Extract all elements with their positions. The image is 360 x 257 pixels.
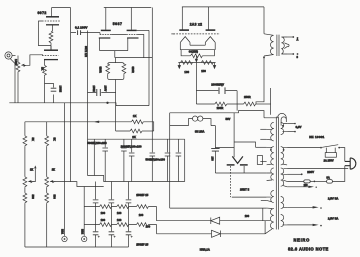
svg-text:3H 25A: 3H 25A [195, 130, 204, 134]
V5 plate left [227, 164, 235, 166]
svg-text:150MF 15: 150MF 15 [136, 243, 149, 247]
output transformer T1 primary top lead [263, 7, 265, 34]
input jack J1 [5, 52, 16, 59]
filament resistor R10 [181, 61, 193, 65]
svg-text:6072: 6072 [38, 11, 47, 15]
V4 filament [205, 37, 215, 50]
column1 ground wire [24, 204, 26, 247]
svg-text:82.6 AUDIO NOTE: 82.6 AUDIO NOTE [288, 247, 329, 252]
svg-text:100: 100 [139, 213, 144, 217]
mid resistor to V1b plate [50, 46, 52, 51]
bus right vertical [184, 139, 186, 181]
svg-text:500: 500 [53, 195, 57, 200]
left HV tap stub 1 [260, 128, 266, 130]
cathode R network loop top [108, 63, 124, 65]
svg-text:100: 100 [211, 157, 214, 162]
feedback wire with arrow [25, 121, 131, 123]
grid tie wire [100, 33, 126, 35]
svg-text:1K: 1K [52, 169, 55, 172]
T2 right winding 6.3V [281, 122, 287, 134]
hum pot column 2: wire [46, 122, 48, 136]
ladder cap C11 [93, 182, 99, 207]
left tap stub 3 [256, 146, 267, 148]
output stage top rail [182, 6, 264, 8]
svg-text:MB2: MB2 [80, 229, 83, 235]
filament resistor R11 [201, 61, 213, 65]
wire rail down to coupling cap [71, 8, 76, 182]
pot1 to R wire [24, 188, 26, 193]
svg-text:NEIRO: NEIRO [294, 237, 311, 242]
U2b cathode leg [127, 38, 129, 51]
svg-text:2,5V 5A: 2,5V 5A [328, 196, 339, 200]
HV return wire [215, 172, 266, 174]
svg-text:5K: 5K [31, 138, 35, 141]
ladder resistor R18 [136, 205, 148, 209]
ladder cap C12 [109, 182, 115, 207]
snubber box [325, 148, 336, 158]
terminal T2 [82, 236, 87, 241]
bias upper feed vertical [262, 208, 264, 221]
T1 secondary winding [281, 37, 289, 54]
bias line lower [157, 233, 266, 235]
resistor R7 [23, 136, 27, 147]
ladder cap C15 [109, 225, 116, 247]
hum resistor R9 [181, 50, 214, 58]
B+ node rail [270, 88, 272, 115]
ladder resistor R20 [100, 223, 112, 227]
bias feed from line [170, 207, 267, 209]
rectifier cathode out wire [234, 142, 255, 147]
svg-text:820R: 820R [131, 67, 135, 73]
cathode bypass cap C3 [88, 89, 116, 96]
ladder row1 wire [84, 207, 156, 221]
T1 primary winding [264, 34, 274, 56]
T2 right winding mains lower [281, 168, 287, 187]
5687 top rail [104, 7, 152, 9]
pot wiper wire to grid [26, 55, 44, 66]
svg-text:500MF,100+100: 500MF,100+100 [87, 141, 107, 145]
svg-text:500: 500 [31, 195, 35, 200]
long vertical to terminal 1 [64, 103, 66, 236]
bias vertical rail [169, 113, 171, 208]
cathode node wire down [115, 80, 117, 106]
6.3V tap 2 dot [294, 131, 296, 133]
svg-text:2K: 2K [132, 135, 136, 139]
cap bank left lead [93, 139, 95, 175]
bias line upper [157, 220, 266, 222]
terminal dot A [297, 37, 299, 39]
cathode join wire [100, 51, 153, 63]
svg-text:1K: 1K [133, 114, 137, 118]
filter cap C10 [176, 139, 182, 181]
svg-text:8: 8 [297, 55, 299, 59]
ladder cap C13 [126, 182, 132, 207]
ladder cap C16 [126, 225, 133, 247]
ladder resistor R22 [136, 223, 148, 227]
cap node wire down [236, 91, 238, 111]
bias right vertical [264, 221, 266, 234]
resistor R13 [244, 102, 271, 106]
filament inner bar [190, 44, 205, 46]
bias feed line [170, 111, 264, 118]
tube V1a grid [42, 20, 60, 22]
svg-text:MB1: MB1 [61, 229, 64, 235]
V3 filament [180, 37, 190, 50]
6.3V tap 2 [287, 131, 294, 133]
bias pot VR3 [45, 177, 55, 188]
R7 to pot wire [24, 147, 26, 177]
svg-text:100: 100 [201, 69, 206, 73]
svg-text:820R: 820R [99, 67, 103, 73]
ladder mid vertical 2 [110, 207, 112, 225]
filter cap C8 [150, 139, 156, 181]
cathode resistor R2 [43, 65, 47, 76]
diode D1 [211, 217, 220, 224]
tap bottom dot [292, 53, 294, 55]
ladder resistor R16 [100, 205, 112, 209]
shared grid line [173, 33, 220, 35]
svg-text:100M: 100M [59, 86, 63, 93]
bias pot VR2 [23, 165, 37, 187]
svg-text:0,1 100V: 0,1 100V [75, 26, 88, 30]
tube V1b cathode bar [44, 59, 58, 61]
R8 to pot wire [46, 147, 48, 177]
tube V1a plate bar [46, 16, 59, 18]
filter cap C9 [165, 139, 171, 181]
left HV tap stub 2 [260, 138, 266, 140]
tube V1b plate lead [50, 46, 52, 50]
filament center wire down [195, 63, 197, 105]
U2b grid [126, 34, 137, 36]
rectifier V5 filament [232, 156, 243, 163]
pot2 to R wire [46, 188, 48, 193]
U2b plate bar [127, 29, 137, 31]
earth arrow line [287, 186, 317, 188]
svg-text:1K: 1K [41, 67, 45, 70]
V3 plate lead [181, 7, 183, 30]
tube V1b plate bar [44, 49, 58, 51]
VR3 wiper wire [54, 182, 103, 187]
svg-text:68(2W): 68(2W) [189, 50, 198, 54]
B+ rail left [148, 30, 150, 105]
T2 left winding D [267, 191, 274, 203]
svg-text:1K: 1K [30, 169, 33, 172]
svg-text:100: 100 [245, 214, 250, 218]
filter cap C7 [129, 139, 135, 181]
ladder resistor R17 [117, 205, 129, 209]
tube V1b cathode lead [44, 60, 46, 66]
T2 right winding mains upper [281, 147, 287, 165]
cathode resistor R4 [122, 64, 126, 75]
tap top dot [292, 36, 294, 38]
svg-text:3A: 3A [326, 176, 329, 180]
svg-text:HRR,1A: HRR,1A [200, 247, 210, 251]
svg-text:100: 100 [117, 211, 122, 215]
2.5V winding arrow b [287, 224, 322, 227]
ladder resistor R21 [117, 223, 129, 227]
mains switch wire [287, 147, 320, 149]
cap bank top bus [88, 138, 185, 140]
lower resistor R6 [116, 106, 154, 133]
T2 right winding 2.5V b [281, 215, 287, 227]
B+ rail right [151, 8, 153, 140]
T2 top lead curl [264, 113, 286, 125]
junction dot [106, 102, 108, 104]
T2 phase dot left [270, 149, 272, 151]
V3 plate bar [179, 29, 189, 31]
svg-text:50V: 50V [226, 117, 231, 121]
T1 core [277, 35, 279, 56]
U2a plate bar [101, 29, 111, 31]
diode D2 [212, 230, 221, 237]
2.5V winding arrow a [287, 206, 322, 209]
ground bus stage1 [9, 103, 149, 106]
switch S1 [320, 145, 345, 162]
T1 secondary tap top [287, 36, 293, 38]
U2a grid [100, 34, 111, 36]
resistor R12 [196, 102, 243, 106]
svg-text:100: 100 [184, 70, 189, 74]
filament cap C4 [196, 85, 237, 94]
feedback resistor R5 [131, 120, 153, 131]
left long rail [87, 31, 89, 176]
svg-text:2A3 x2: 2A3 x2 [190, 22, 202, 26]
resistor R15 [45, 193, 49, 204]
T2 curl dot [282, 125, 284, 127]
U2b cathode bar [127, 37, 138, 39]
tube V1a cathode bar [46, 24, 59, 26]
svg-text:2,5V 5A: 2,5V 5A [328, 217, 339, 221]
AC plug [345, 158, 356, 169]
grid stopper wire [138, 35, 144, 58]
top rail of SRPP [52, 7, 71, 9]
T2 left winding C [267, 168, 274, 181]
svg-text:5K: 5K [53, 138, 57, 141]
filter cap C6 [121, 139, 127, 181]
T1 primary bottom lead [256, 56, 264, 104]
cathode resistor R3 [106, 64, 110, 75]
left tap stub 4 [260, 161, 266, 163]
plate right lead [243, 166, 245, 173]
U2b plate lead [130, 8, 132, 30]
V5 plate right [240, 164, 248, 166]
rect filament return wire [232, 196, 267, 198]
rectifier filter cap C17 [211, 148, 219, 174]
ladder mid vertical 1 [95, 207, 97, 225]
svg-text:100: 100 [117, 218, 122, 222]
svg-text:A: A [297, 37, 299, 41]
T2 phase dot right [283, 149, 285, 151]
plate left drop dashed [230, 166, 232, 197]
svg-text:100: 100 [101, 211, 106, 215]
terminal T1 [62, 236, 67, 241]
R2 lower wire [44, 76, 46, 103]
primary bottom junction dot [263, 57, 265, 59]
V4 plate lead [207, 7, 209, 30]
cathode loop bottom [108, 75, 124, 80]
cathode bypass cap C2 [45, 84, 57, 103]
svg-text:230V: 230V [307, 170, 314, 174]
coupling cap C1 [78, 30, 100, 35]
svg-text:100V: 100V [104, 86, 107, 92]
svg-text:6,3V: 6,3V [296, 125, 302, 129]
row2 left arrow [178, 63, 180, 69]
aux stub wire [261, 199, 267, 201]
bottom ground bus [25, 246, 129, 248]
fuse F2 [327, 169, 345, 184]
V1a cathode lead [52, 25, 54, 31]
svg-text:NE 10001: NE 10001 [309, 135, 324, 139]
hum pot column 1: wire [24, 122, 26, 136]
T2 left winding A [267, 122, 274, 141]
fuse line with primary fuse [287, 180, 327, 183]
svg-text:25BT II: 25BT II [240, 188, 249, 192]
jack ground wire [10, 59, 15, 103]
mains neutral wire [287, 166, 348, 169]
cap bank bottom bus [88, 176, 185, 182]
power transformer T2 core [276, 117, 278, 230]
SRPP mid resistor R1 [49, 31, 53, 46]
T1 secondary tap bottom [287, 53, 293, 55]
filter cap C5 [102, 139, 108, 181]
tube V1a plate lead to top rail [51, 8, 53, 17]
grid return wire [39, 21, 52, 46]
column2 ground wire [46, 204, 48, 247]
U2a cathode bar [99, 37, 111, 39]
resistor R14 [23, 193, 27, 204]
resistor R8 [45, 136, 49, 147]
svg-text:180R: 180R [217, 106, 224, 110]
filament row2 wire [178, 62, 215, 64]
terminal dot B [297, 53, 299, 55]
row2 right arrow [213, 63, 215, 69]
ladder cap C14 [93, 225, 100, 247]
grid stub [171, 33, 174, 35]
T2 left winding B [267, 147, 274, 165]
U2a cathode leg [99, 38, 101, 51]
svg-text:100M: 100M [92, 86, 95, 92]
T2 right winding 2.5V a [281, 197, 287, 209]
volume pot VR1 [16, 56, 25, 103]
6.3V tap 1 [287, 123, 294, 125]
vertical to terminal 2 [83, 187, 85, 236]
ladder row2 wire [84, 225, 156, 234]
fuse box F1 [257, 156, 262, 165]
hum center tap arrow [195, 56, 197, 62]
rectifier stem [233, 113, 235, 157]
6.3V tap 1 dot [294, 123, 296, 125]
grid choke L1 [170, 116, 216, 126]
T2 left winding E [265, 208, 274, 234]
svg-text:500MF,100+100: 500MF,100+100 [146, 157, 166, 161]
plate tie wire to rail [137, 29, 149, 31]
svg-text:250R: 250R [244, 95, 251, 99]
filament outer wire [180, 49, 215, 51]
svg-text:100: 100 [101, 218, 106, 222]
svg-text:150MF 15: 150MF 15 [136, 193, 149, 197]
svg-text:5687: 5687 [113, 22, 123, 26]
rectifier cap tie wire [215, 147, 234, 149]
ladder mid vertical 3 [128, 207, 130, 225]
choke to rectifier wire [214, 126, 216, 148]
U2a plate lead [105, 8, 107, 30]
V4 plate bar [206, 29, 216, 31]
tube V1b grid [42, 55, 59, 57]
svg-text:2A 250V: 2A 250V [324, 158, 334, 162]
tap dot wire [287, 173, 303, 175]
